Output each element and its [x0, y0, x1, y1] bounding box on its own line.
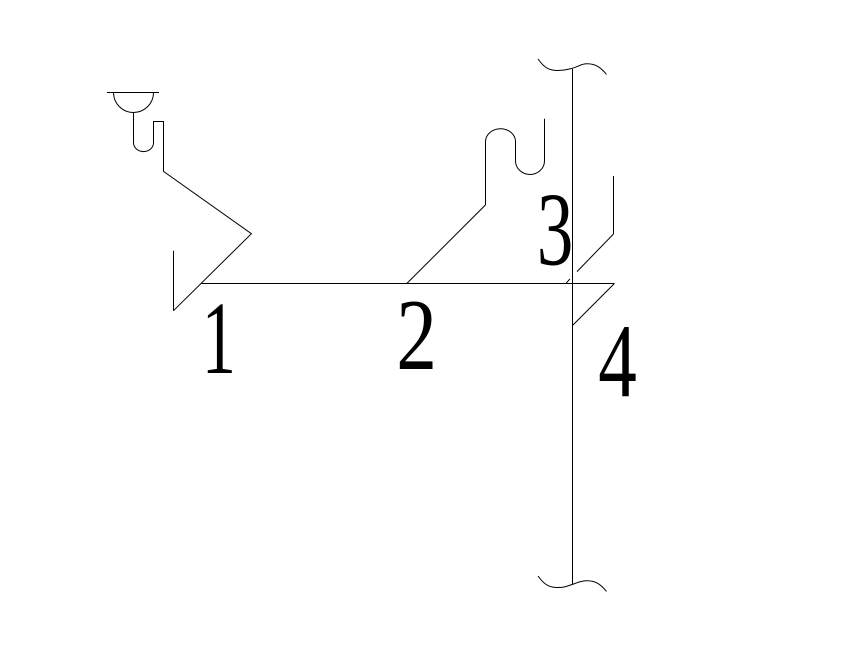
- riser vertical wire: [572, 69, 574, 584]
- connector 3 diagonal tail: [566, 279, 570, 283]
- svg-text:2: 2: [396, 279, 437, 391]
- switch S1 vertical tick: [173, 251, 175, 311]
- break symbol top: [538, 59, 607, 74]
- break symbol bottom: [538, 576, 607, 591]
- svg-text:1: 1: [202, 281, 236, 396]
- lamp L1 dome: [114, 93, 154, 113]
- svg-text:4: 4: [598, 303, 637, 419]
- connector 3 vertical stub: [613, 176, 615, 234]
- pendant hook 2 drop line: [407, 119, 545, 284]
- lamp L1 canopy line: [107, 92, 159, 94]
- wire main run: [202, 283, 615, 285]
- connector 4 diagonal: [573, 284, 615, 326]
- svg-text:3: 3: [537, 173, 573, 288]
- lamp L1 pendant cord hook and drop to switch arm: [134, 113, 252, 311]
- connector 3 diagonal: [577, 234, 614, 272]
